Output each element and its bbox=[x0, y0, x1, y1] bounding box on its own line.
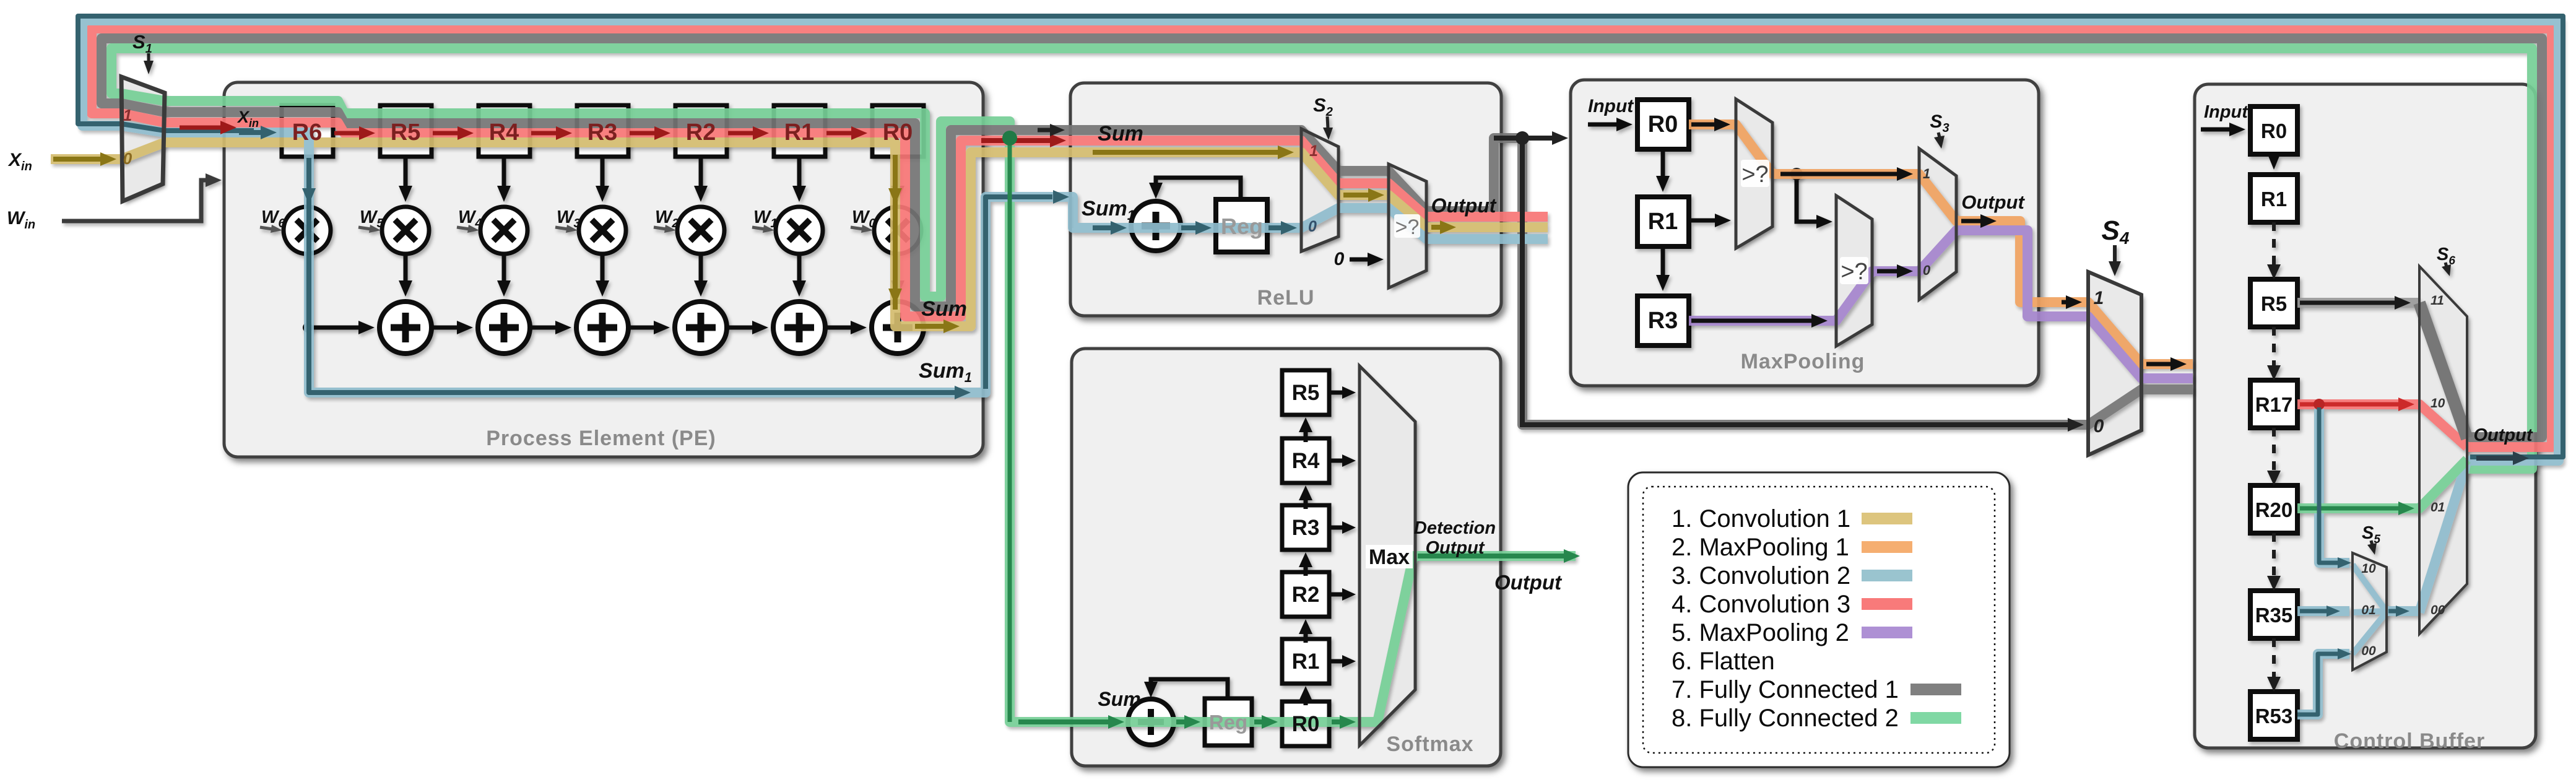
svg-text:Output: Output bbox=[1431, 194, 1497, 217]
register R1 (MaxPooling) bbox=[1637, 197, 1689, 246]
label Max patch bbox=[1366, 545, 1413, 568]
wire Softmax feedback loop bbox=[1151, 679, 1228, 700]
wire W4 input arrow bbox=[457, 225, 479, 233]
adder under R0 bbox=[872, 302, 924, 354]
path R20 to S6 green highlight bbox=[2297, 459, 2467, 508]
wire R5 to Max selector bbox=[1329, 386, 1356, 399]
path R53 to S5 blue highlight bbox=[2297, 654, 2349, 715]
svg-text:R53: R53 bbox=[2255, 705, 2293, 728]
ReLU mux S2 body bbox=[1301, 129, 1338, 251]
comparator 2 body bbox=[1836, 196, 1872, 346]
svg-text:Max: Max bbox=[1369, 545, 1410, 569]
ReLU comparator mux outline bbox=[1389, 164, 1426, 288]
wire R35 to S5 core bbox=[2300, 606, 2340, 617]
svg-text:R17: R17 bbox=[2255, 393, 2293, 416]
register R4 (Softmax) bbox=[1282, 438, 1329, 483]
svg-text:0: 0 bbox=[1334, 249, 1345, 269]
legend swatch 4. Convolution 3 bbox=[1862, 598, 1912, 610]
register Reg (Softmax) bbox=[1205, 698, 1252, 745]
mux S3 body bbox=[1919, 149, 1956, 300]
svg-text:10: 10 bbox=[2431, 396, 2445, 411]
svg-text:Sum1: Sum1 bbox=[1082, 197, 1135, 223]
mux S6 body bbox=[2419, 266, 2467, 634]
wire S5 select into mux S5 bbox=[2367, 541, 2377, 555]
path S6 input 00 blue highlight bbox=[2419, 461, 2467, 612]
svg-text:R0: R0 bbox=[1648, 111, 1678, 137]
svg-text:1: 1 bbox=[123, 106, 132, 124]
svg-text:Detection: Detection bbox=[1414, 518, 1496, 538]
path MaxPooling 1 (orange) highlight bbox=[1689, 124, 2193, 364]
wire W6 input arrow bbox=[260, 225, 282, 233]
wire ReLU mux to comparator bbox=[1343, 188, 1384, 202]
wire comparator1 to mux S3 bbox=[1780, 167, 1913, 181]
wire Control Buffer Output arrow bbox=[2476, 451, 2529, 465]
multiplier under R5 bbox=[382, 207, 429, 254]
path R5 to S6 gray halo bbox=[2297, 298, 2419, 308]
wire multiplier to adder (R4 column) bbox=[497, 254, 511, 297]
wire constant 0 into ReLU comparator bbox=[1350, 253, 1384, 266]
wire R1 to R0 red arrow bbox=[826, 126, 867, 140]
svg-text:R3: R3 bbox=[588, 119, 618, 146]
svg-text:Reg: Reg bbox=[1221, 214, 1263, 239]
register R1 (Control Buffer) bbox=[2250, 175, 2297, 222]
register R6 (PE) bbox=[282, 105, 333, 157]
svg-text:Control Buffer: Control Buffer bbox=[2334, 729, 2485, 753]
adder under R2 bbox=[675, 302, 727, 354]
svg-text:Input: Input bbox=[2204, 102, 2249, 122]
wire adder chain segment 1 bbox=[432, 321, 473, 334]
svg-text:11: 11 bbox=[2431, 293, 2444, 308]
comparator 2 outline bbox=[1836, 196, 1872, 346]
wire Reg to mux 0 input (ReLU) bbox=[1268, 221, 1297, 235]
svg-text:0: 0 bbox=[1923, 263, 1931, 278]
wire adder to Reg (ReLU) bbox=[1181, 221, 1212, 235]
wire R5 to R4 red arrow bbox=[433, 126, 474, 140]
wire R0 to R1 (Softmax) bbox=[1299, 686, 1312, 705]
path S5 output blue highlight bbox=[2387, 606, 2419, 616]
svg-text:R1: R1 bbox=[1648, 209, 1678, 235]
mux S5 outline bbox=[2353, 553, 2387, 670]
svg-text:10: 10 bbox=[2361, 562, 2376, 576]
svg-text:R0: R0 bbox=[2261, 119, 2287, 142]
wire R5 to S6 core bbox=[2300, 296, 2411, 310]
register R17 (Control Buffer) bbox=[2250, 380, 2297, 428]
svg-text:Output: Output bbox=[1425, 538, 1485, 558]
wire R2 to multiplier bbox=[694, 157, 708, 202]
svg-text:R1: R1 bbox=[784, 119, 815, 146]
wire multiplier to adder (R2 column) bbox=[694, 254, 708, 297]
svg-text:>?: >? bbox=[1741, 162, 1768, 188]
register R3 (MaxPooling) bbox=[1637, 296, 1689, 345]
comparator 1 outline bbox=[1736, 99, 1772, 248]
legend swatch 8. Fully Connected 2 bbox=[1910, 712, 1961, 724]
wire multiplier to adder (R5 column) bbox=[399, 254, 412, 297]
wire W_in bbox=[62, 180, 207, 221]
svg-text:2. MaxPooling 1: 2. MaxPooling 1 bbox=[1672, 534, 1849, 561]
path S5 internal 00 blue bbox=[2353, 614, 2385, 654]
wire R0 to R1 (Control Buffer) bbox=[2268, 154, 2279, 170]
mux S1 body bbox=[121, 77, 165, 201]
svg-text:Sum: Sum bbox=[1098, 122, 1143, 146]
mux S5 body bbox=[2353, 553, 2387, 670]
wire Reg to R0 (Softmax) bbox=[1254, 715, 1278, 729]
wire R3 to comparator2 bbox=[1691, 314, 1828, 328]
PE container box bbox=[224, 82, 983, 457]
path Fully Connected 1 (gray) highlight bbox=[102, 38, 2542, 437]
ReLU container box bbox=[1070, 83, 1501, 316]
svg-text:Reg: Reg bbox=[1209, 711, 1247, 734]
mux S4 body bbox=[2088, 272, 2141, 455]
path Convolution 1 (olive) highlight bbox=[51, 142, 1548, 326]
svg-text:R4: R4 bbox=[489, 119, 519, 146]
wire R0 to Max selector (Softmax) bbox=[1332, 715, 1356, 729]
wire Input into R0 (Control Buffer) bbox=[2201, 123, 2245, 136]
node Sum junction to Softmax bbox=[1002, 131, 1017, 146]
node comparator1 output junction bbox=[1790, 168, 1803, 180]
wire R5 to multiplier bbox=[399, 157, 412, 202]
wire R1 to multiplier bbox=[792, 157, 806, 202]
wire R3 to multiplier bbox=[596, 157, 609, 202]
svg-text:Output: Output bbox=[1961, 191, 2025, 213]
svg-text:3. Convolution 2: 3. Convolution 2 bbox=[1672, 562, 1850, 589]
legend swatch 5. MaxPooling 2 bbox=[1862, 627, 1912, 638]
register R0 (Control Buffer) bbox=[2250, 106, 2297, 154]
wire Sum1 into adder (ReLU) bbox=[1093, 221, 1127, 235]
wire multiplier to adder (R1 column) bbox=[792, 254, 806, 297]
wire adder chain start from multiplier R6 bbox=[306, 254, 310, 328]
svg-text:1: 1 bbox=[2094, 288, 2104, 308]
wire R17 to S6 red core bbox=[2300, 398, 2414, 411]
wire R35 to R53 dashed (Control Buffer) bbox=[2267, 638, 2281, 692]
wire R53 to S5 core bbox=[2297, 654, 2340, 715]
legend swatch 1. Convolution 1 bbox=[1862, 513, 1912, 524]
legend swatch 7. Fully Connected 1 bbox=[1910, 684, 1961, 695]
wire W1 input arrow bbox=[752, 225, 774, 233]
mux S3 outline bbox=[1919, 149, 1956, 300]
path Convolution 2 (blue) highlight bbox=[82, 20, 2559, 461]
path Convolution 3 (red) highlight bbox=[92, 28, 2552, 447]
svg-text:0: 0 bbox=[2094, 416, 2104, 437]
label comparator1 patch bbox=[1741, 160, 1769, 187]
wire W3 input arrow bbox=[555, 225, 578, 233]
wire W0 input arrow bbox=[851, 225, 873, 233]
wire R2 to R3 (Softmax) bbox=[1299, 552, 1312, 576]
Softmax Max selector body bbox=[1360, 366, 1415, 745]
register R5 (Control Buffer) bbox=[2250, 279, 2297, 327]
svg-text:01: 01 bbox=[2431, 500, 2445, 515]
svg-text:R20: R20 bbox=[2255, 498, 2293, 521]
svg-text:R0: R0 bbox=[883, 119, 913, 146]
multiplier under R4 bbox=[480, 207, 527, 254]
wire R4 to Max selector bbox=[1329, 454, 1356, 467]
wire comparator2 to mux S3 bbox=[1877, 264, 1913, 278]
path R35 to S5 blue highlight bbox=[2297, 606, 2349, 616]
svg-text:5. MaxPooling 2: 5. MaxPooling 2 bbox=[1672, 619, 1849, 646]
comparator 1 body bbox=[1736, 99, 1772, 248]
svg-text:8. Fully Connected 2: 8. Fully Connected 2 bbox=[1672, 705, 1899, 732]
MaxPooling container box bbox=[1571, 80, 2039, 386]
wire R3 to Max selector bbox=[1329, 521, 1356, 534]
path R17 to S6 red highlight bbox=[2297, 404, 2467, 447]
wire mux S3 output arrow bbox=[1961, 214, 1997, 228]
svg-text:R1: R1 bbox=[2261, 188, 2287, 211]
svg-text:R0: R0 bbox=[1292, 712, 1320, 736]
svg-text:00: 00 bbox=[2431, 603, 2445, 617]
svg-text:Output: Output bbox=[1494, 571, 1563, 594]
adder (ReLU accumulator) bbox=[1131, 201, 1181, 251]
register R0 (Softmax) bbox=[1282, 702, 1329, 746]
wire R0 to R1 (MaxPooling) bbox=[1656, 149, 1670, 192]
wire R3 to R2 red arrow bbox=[630, 126, 670, 140]
legend inner dotted border bbox=[1643, 487, 1995, 753]
wire Convolution 2 core (feedback loop) bbox=[78, 16, 2563, 457]
svg-text:R1: R1 bbox=[1292, 649, 1320, 674]
path MaxPooling 2 (purple) highlight bbox=[1689, 230, 2193, 378]
wire R1 to R5 dashed (Control Buffer) bbox=[2267, 222, 2281, 279]
svg-text:R2: R2 bbox=[686, 119, 716, 146]
wire R17 branch teal core bbox=[2319, 407, 2340, 563]
wire R0 to comparator1 (MaxPooling) bbox=[1691, 118, 1730, 131]
adder under R1 bbox=[773, 302, 825, 354]
svg-text:0: 0 bbox=[1308, 218, 1317, 235]
svg-text:6. Flatten: 6. Flatten bbox=[1672, 648, 1775, 675]
node R17 branch junction bbox=[2314, 399, 2325, 410]
svg-text:1: 1 bbox=[1309, 142, 1318, 160]
svg-text:>?: >? bbox=[1841, 259, 1867, 285]
wire ReLU output junction horizontal bbox=[1494, 136, 1553, 141]
wire R6 to R5 red arrow bbox=[334, 126, 375, 140]
register R0 (MaxPooling) bbox=[1637, 100, 1689, 149]
register R2 (PE) bbox=[675, 105, 727, 157]
adder (Softmax accumulator) bbox=[1128, 699, 1174, 745]
wire R5 to R17 dashed (Control Buffer) bbox=[2267, 327, 2281, 380]
register R5 (Softmax) bbox=[1282, 370, 1329, 415]
wire S3 select into mux S3 bbox=[1934, 133, 1945, 149]
multiplier under R2 bbox=[677, 207, 724, 254]
wire MaxPooling output into mux S4 bbox=[2062, 295, 2082, 309]
wire R1 to R2 (Softmax) bbox=[1299, 619, 1312, 643]
node FC1 junction bbox=[1516, 131, 1529, 145]
register R4 (PE) bbox=[479, 105, 530, 157]
svg-text:1. Convolution 1: 1. Convolution 1 bbox=[1672, 505, 1850, 532]
svg-text:00: 00 bbox=[2361, 644, 2376, 658]
wire adder chain segment 3 bbox=[628, 321, 670, 334]
wire Sum1 riser into ReLU bbox=[986, 197, 1052, 389]
svg-text:R5: R5 bbox=[391, 119, 421, 146]
wire R2 to Max selector bbox=[1329, 588, 1356, 601]
wire S2 select into ReLU mux bbox=[1323, 116, 1333, 140]
wire Sum into ReLU mux bbox=[1093, 146, 1294, 159]
register R3 (Softmax) bbox=[1282, 505, 1329, 550]
legend box bbox=[1628, 472, 2010, 767]
wire S4 select into mux S4 bbox=[2109, 245, 2121, 276]
wire R3 to R4 (Softmax) bbox=[1299, 485, 1312, 509]
wire adder chain segment 5 bbox=[825, 321, 867, 334]
svg-text:>?: >? bbox=[1395, 215, 1420, 239]
wire comparator1 output branch to comparator 2 bbox=[1797, 173, 1820, 222]
svg-text:R35: R35 bbox=[2255, 604, 2293, 627]
svg-text:Sum: Sum bbox=[921, 297, 967, 321]
wire Detection Output arrow bbox=[1418, 549, 1580, 563]
svg-text:Softmax: Softmax bbox=[1386, 732, 1473, 756]
wire R1 to comparator 1 bbox=[1689, 214, 1731, 227]
path S6 internal 11 gray bbox=[2419, 303, 2467, 438]
wire Sum red arrow into ReLU bbox=[981, 134, 1066, 147]
register R53 (Control Buffer) bbox=[2250, 692, 2297, 739]
legend swatch 2. MaxPooling 1 bbox=[1862, 541, 1912, 553]
wire S5 output core bbox=[2388, 606, 2409, 617]
wire S6 select into mux S6 bbox=[2442, 263, 2451, 276]
wire adder chain segment 4 bbox=[727, 321, 768, 334]
adder under R4 bbox=[478, 302, 530, 354]
wire multiplier to adder (R0 column) bbox=[891, 254, 904, 297]
wire ReLU feedback loop bbox=[1156, 178, 1241, 201]
mux S4 outline bbox=[2088, 272, 2141, 455]
wire S1 select into mux S1 bbox=[144, 53, 154, 74]
svg-text:ReLU: ReLU bbox=[1257, 286, 1315, 310]
multiplier under R0 bbox=[874, 207, 921, 254]
svg-text:4. Convolution 3: 4. Convolution 3 bbox=[1672, 591, 1850, 618]
register R35 (Control Buffer) bbox=[2250, 591, 2297, 638]
label comparator patch (ReLU) bbox=[1394, 214, 1420, 238]
svg-text:R6: R6 bbox=[292, 119, 323, 146]
wire R17 to R20 dashed (Control Buffer) bbox=[2267, 428, 2281, 485]
wire Sum into Softmax adder bbox=[1018, 715, 1124, 729]
svg-text:Sum: Sum bbox=[1098, 688, 1140, 710]
svg-text:Sum1: Sum1 bbox=[919, 359, 972, 385]
mux S6 outline bbox=[2419, 266, 2467, 634]
wire junction to first adder bbox=[308, 321, 375, 334]
svg-text:R3: R3 bbox=[1292, 516, 1320, 540]
wire Input into R0 (MaxPooling) bbox=[1588, 118, 1633, 131]
register R2 (Softmax) bbox=[1282, 572, 1329, 617]
svg-text:MaxPooling: MaxPooling bbox=[1741, 350, 1865, 373]
wire Sum gray arrow into ReLU bbox=[1038, 124, 1065, 136]
wire R20 to S6 core bbox=[2300, 502, 2414, 515]
register R1 (Softmax) bbox=[1282, 639, 1329, 684]
Softmax container box bbox=[1072, 349, 1501, 766]
multiplier under R1 bbox=[776, 207, 823, 254]
wire R1 to R3 (MaxPooling) bbox=[1656, 246, 1670, 291]
wire X_in arrow into R6 bbox=[239, 126, 277, 139]
Control Buffer container box bbox=[2195, 84, 2536, 748]
wire R0 down through multiplier to adder (olive) bbox=[893, 155, 898, 310]
mux S1 outline bbox=[121, 77, 165, 201]
wire adder to Reg (Softmax) bbox=[1176, 715, 1200, 729]
svg-text:1: 1 bbox=[1923, 166, 1930, 181]
label comparator2 patch bbox=[1840, 257, 1868, 284]
register Reg (ReLU) bbox=[1216, 199, 1267, 252]
adder under R5 bbox=[379, 302, 432, 354]
node adder chain junction bbox=[303, 323, 313, 332]
wire mux S1 to R6 red arrow bbox=[180, 121, 236, 134]
svg-text:Input: Input bbox=[1588, 96, 1634, 116]
wire W5 input arrow bbox=[358, 225, 381, 233]
multiplier under R6 bbox=[284, 207, 331, 254]
wire ReLU output olive arrow bbox=[1431, 220, 1456, 234]
svg-text:0: 0 bbox=[123, 149, 132, 168]
wire R4 to R5 (Softmax) bbox=[1299, 417, 1312, 442]
wire R4 to R3 red arrow bbox=[531, 126, 572, 140]
path S5 internal 01 blue bbox=[2353, 611, 2387, 612]
wire R4 to multiplier bbox=[497, 157, 511, 202]
register R20 (Control Buffer) bbox=[2250, 485, 2297, 533]
svg-text:R3: R3 bbox=[1648, 308, 1678, 334]
wire R6 down through multiplier to Sum1 bbox=[309, 158, 955, 393]
svg-text:R4: R4 bbox=[1292, 449, 1320, 473]
adder under R3 bbox=[576, 302, 628, 354]
ReLU comparator mux body bbox=[1389, 164, 1426, 288]
register R0 (PE) bbox=[872, 105, 924, 157]
wire multiplier to adder (R3 column) bbox=[596, 254, 609, 297]
wire adder chain segment 2 bbox=[530, 321, 571, 334]
Softmax Max selector outline bbox=[1360, 366, 1415, 745]
svg-text:01: 01 bbox=[2361, 603, 2375, 617]
path S5 internal 10 blue bbox=[2353, 565, 2385, 610]
multiplier under R3 bbox=[579, 207, 626, 254]
svg-text:R5: R5 bbox=[1292, 381, 1320, 405]
wire last adder output (Sum) bbox=[915, 319, 960, 333]
register R5 (PE) bbox=[380, 105, 432, 157]
wire R20 to R35 dashed (Control Buffer) bbox=[2267, 533, 2281, 591]
svg-text:R2: R2 bbox=[1292, 583, 1320, 607]
path R17 branch to S5 blue highlight bbox=[2319, 409, 2349, 563]
ReLU mux S2 outline bbox=[1301, 129, 1338, 251]
wire mux S4 output arrow bbox=[2146, 357, 2187, 371]
svg-text:Process Element (PE): Process Element (PE) bbox=[486, 427, 716, 450]
register R3 (PE) bbox=[577, 105, 628, 157]
wire Flatten vertical to Softmax bbox=[1008, 137, 1012, 722]
legend swatch 3. Convolution 2 bbox=[1862, 570, 1912, 581]
wire R2 to R1 red arrow bbox=[728, 126, 769, 140]
svg-text:7. Fully Connected 1: 7. Fully Connected 1 bbox=[1672, 676, 1899, 703]
wire X_in input arrow bbox=[53, 152, 116, 166]
svg-text:R5: R5 bbox=[2261, 292, 2287, 315]
wire W2 input arrow bbox=[654, 225, 676, 233]
svg-text:Output: Output bbox=[2473, 425, 2533, 445]
wire FC1 vertical and bottom run to mux S4 input 0 bbox=[1522, 138, 2068, 425]
wire R0 to multiplier bbox=[891, 157, 904, 202]
register R1 (PE) bbox=[774, 105, 825, 157]
wire R1 to Max selector bbox=[1329, 655, 1356, 667]
